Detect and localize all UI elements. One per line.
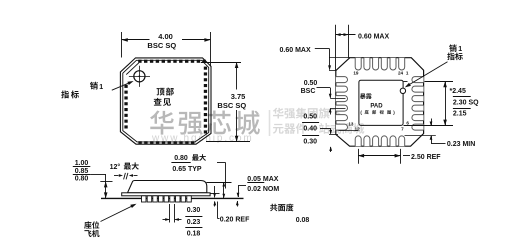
svg-text:0.80: 0.80 <box>75 176 89 183</box>
svg-text:PAD: PAD <box>370 104 383 110</box>
svg-text:1: 1 <box>99 84 103 91</box>
svg-text:BSC: BSC <box>301 88 316 95</box>
svg-text:BSC SQ: BSC SQ <box>147 41 176 50</box>
svg-text:12°: 12° <box>110 163 121 171</box>
svg-text:0.60 MAX: 0.60 MAX <box>358 34 389 41</box>
svg-text:0.08: 0.08 <box>296 217 310 224</box>
svg-text:0.50: 0.50 <box>304 80 318 87</box>
svg-text:2.30 SQ: 2.30 SQ <box>453 99 479 106</box>
svg-text:4.00: 4.00 <box>158 32 173 41</box>
svg-text:0.02 NOM: 0.02 NOM <box>247 186 279 193</box>
svg-text:0.80: 0.80 <box>174 155 188 162</box>
svg-text:13: 13 <box>348 122 354 127</box>
svg-text:0.20 REF: 0.20 REF <box>220 216 250 223</box>
svg-text:0.30: 0.30 <box>187 207 201 214</box>
svg-text:0.23: 0.23 <box>187 219 201 226</box>
svg-text:0.40: 0.40 <box>303 126 317 133</box>
svg-text:0.60 MAX: 0.60 MAX <box>280 47 311 54</box>
svg-text:0.50: 0.50 <box>303 113 317 120</box>
svg-text:0.23 MIN: 0.23 MIN <box>447 141 475 148</box>
svg-text:0.30: 0.30 <box>303 139 317 146</box>
svg-text:1: 1 <box>458 46 462 53</box>
svg-text:0.65 TYP: 0.65 TYP <box>172 166 202 173</box>
svg-text:*2.45: *2.45 <box>450 88 466 95</box>
svg-text:BSC SQ: BSC SQ <box>217 101 246 110</box>
svg-text:6: 6 <box>406 121 409 126</box>
svg-text:24: 24 <box>398 70 404 75</box>
svg-text:3.75: 3.75 <box>231 92 246 101</box>
svg-text:2.50 REF: 2.50 REF <box>411 154 441 161</box>
svg-text:1: 1 <box>406 70 409 75</box>
svg-text:0.85: 0.85 <box>75 168 89 175</box>
svg-text:0.18: 0.18 <box>187 231 201 238</box>
svg-text:0.05 MAX: 0.05 MAX <box>247 176 278 183</box>
svg-text:19: 19 <box>353 71 359 76</box>
svg-text:7: 7 <box>401 126 404 131</box>
svg-text:2.15: 2.15 <box>453 111 467 118</box>
